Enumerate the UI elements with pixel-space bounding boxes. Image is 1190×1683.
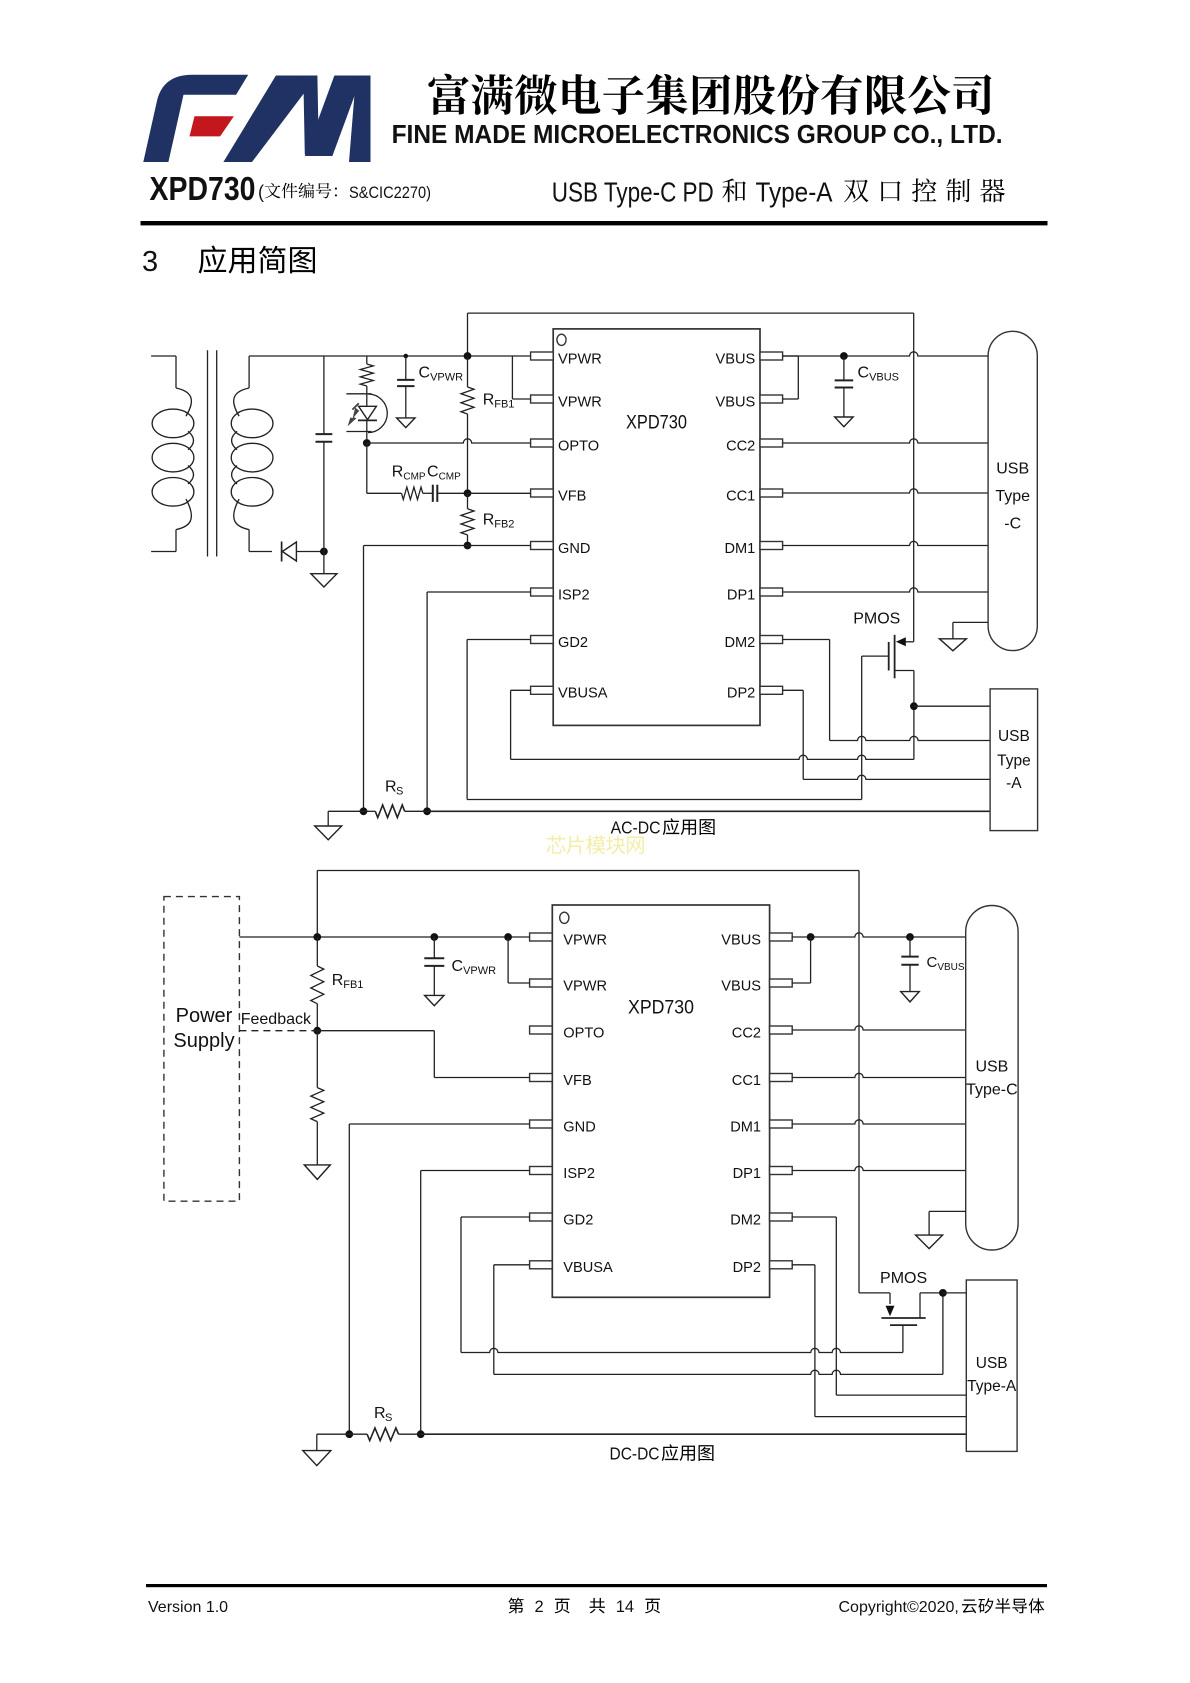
svg-text:VPWR: VPWR: [558, 394, 602, 410]
svg-text:FINE MADE MICROELECTRONICS GRO: FINE MADE MICROELECTRONICS GROUP CO., LT…: [392, 119, 1003, 149]
svg-text:OPTO: OPTO: [558, 438, 599, 454]
svg-text:S: S: [396, 786, 403, 798]
svg-text:VBUS: VBUS: [721, 932, 761, 948]
svg-text:R: R: [385, 779, 397, 796]
svg-text:VBUSA: VBUSA: [563, 1260, 613, 1276]
svg-text:VBUS: VBUS: [716, 351, 756, 367]
svg-text:Power: Power: [176, 1005, 233, 1027]
svg-text:Type: Type: [995, 488, 1030, 505]
svg-text:DP2: DP2: [727, 686, 755, 702]
svg-text:DP2: DP2: [733, 1260, 761, 1276]
svg-text:PMOS: PMOS: [853, 611, 900, 628]
svg-text:CC2: CC2: [732, 1025, 761, 1041]
svg-text:ISP2: ISP2: [563, 1166, 595, 1182]
svg-text:Type: Type: [997, 753, 1031, 770]
svg-text:Type-A: Type-A: [756, 177, 833, 208]
svg-text:VPWR: VPWR: [563, 978, 607, 994]
svg-text:XPD730: XPD730: [150, 170, 256, 207]
svg-text:USB: USB: [975, 1059, 1008, 1076]
svg-text:RFB1: RFB1: [332, 972, 364, 991]
svg-text:AC-DC: AC-DC: [611, 818, 661, 838]
svg-text:14: 14: [616, 1598, 634, 1616]
svg-text:CC1: CC1: [732, 1073, 761, 1089]
svg-text:OPTO: OPTO: [563, 1025, 604, 1041]
svg-text:S&CIC2270): S&CIC2270): [349, 183, 431, 202]
svg-text:CVPWR: CVPWR: [419, 365, 464, 384]
svg-text:GND: GND: [563, 1119, 595, 1135]
svg-text:Type-C: Type-C: [966, 1082, 1018, 1099]
svg-text:CC1: CC1: [726, 488, 755, 504]
svg-text:USB: USB: [996, 461, 1029, 478]
svg-text:R: R: [374, 1405, 386, 1422]
svg-text:VPWR: VPWR: [558, 351, 602, 367]
svg-text:2: 2: [535, 1598, 544, 1616]
svg-text:DC-DC: DC-DC: [610, 1444, 660, 1464]
svg-text:USB Type-C PD: USB Type-C PD: [552, 177, 714, 208]
svg-text:Version 1.0: Version 1.0: [148, 1599, 228, 1616]
svg-text:USB: USB: [998, 728, 1030, 745]
svg-text:VBUS: VBUS: [716, 394, 756, 410]
svg-text:GD2: GD2: [558, 635, 588, 651]
svg-text:VFB: VFB: [563, 1073, 591, 1089]
svg-text:Type-A: Type-A: [967, 1378, 1017, 1395]
svg-text:DM2: DM2: [724, 635, 755, 651]
svg-text:-A: -A: [1006, 775, 1022, 792]
svg-text:Feedback: Feedback: [241, 1011, 312, 1028]
svg-text:Copyright©2020,: Copyright©2020,: [839, 1599, 959, 1616]
svg-text:CVBUS: CVBUS: [927, 954, 965, 973]
svg-text:RCMP: RCMP: [392, 464, 426, 483]
svg-text:USB: USB: [976, 1355, 1008, 1372]
svg-text:VBUSA: VBUSA: [558, 686, 608, 702]
svg-text:(: (: [258, 182, 264, 202]
svg-text:CCMP: CCMP: [427, 464, 461, 483]
svg-text:Supply: Supply: [173, 1030, 234, 1052]
svg-text:CVPWR: CVPWR: [452, 958, 497, 977]
svg-text:GND: GND: [558, 541, 590, 557]
svg-text:-C: -C: [1004, 516, 1021, 533]
svg-text:VBUS: VBUS: [721, 978, 761, 994]
svg-text:S: S: [385, 1412, 392, 1424]
svg-text:DP1: DP1: [727, 587, 755, 603]
svg-text:XPD730: XPD730: [626, 413, 687, 434]
svg-text:CVBUS: CVBUS: [858, 365, 900, 384]
svg-text:DM1: DM1: [730, 1119, 761, 1135]
svg-text:VFB: VFB: [558, 488, 586, 504]
svg-text:PMOS: PMOS: [880, 1270, 927, 1287]
svg-text:DM2: DM2: [730, 1212, 761, 1228]
svg-text:XPD730: XPD730: [628, 998, 694, 1019]
svg-text:DP1: DP1: [733, 1166, 761, 1182]
svg-text:3: 3: [142, 246, 158, 278]
svg-text:CC2: CC2: [726, 438, 755, 454]
svg-text:GD2: GD2: [563, 1212, 593, 1228]
svg-text:DM1: DM1: [724, 541, 755, 557]
svg-text:RFB2: RFB2: [483, 512, 515, 531]
svg-text:VPWR: VPWR: [563, 932, 607, 948]
svg-text:ISP2: ISP2: [558, 587, 590, 603]
svg-text:RFB1: RFB1: [483, 392, 515, 411]
